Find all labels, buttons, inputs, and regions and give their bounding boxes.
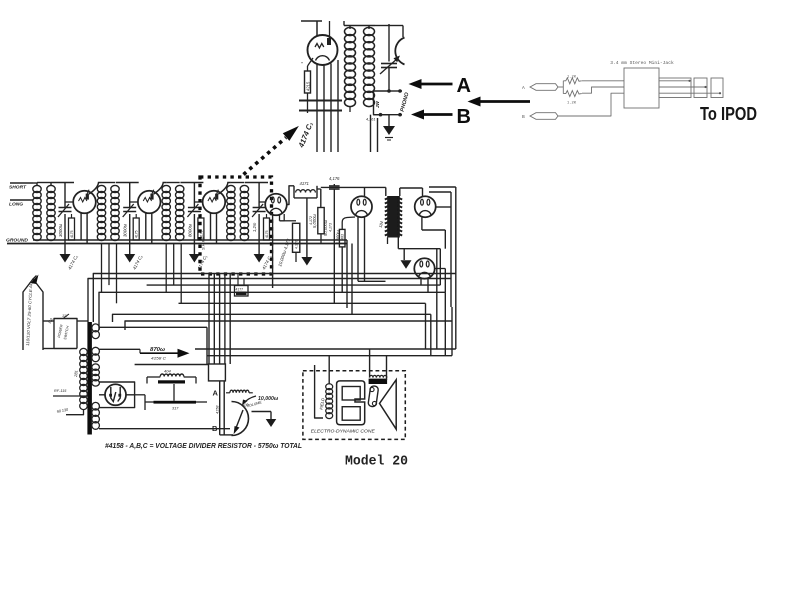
- bus wire h7: [125, 321, 452, 330]
- tube V6 second audio: [415, 196, 436, 217]
- svg-text:A: A: [522, 85, 525, 91]
- wire: V4 plate to choke: [287, 186, 295, 205]
- svg-text:4175: 4175: [70, 230, 74, 238]
- power switch: [54, 319, 77, 349]
- wire: choke tap down: [306, 198, 308, 257]
- svg-text:4,176: 4,176: [295, 240, 299, 249]
- wire: filter rail: [135, 364, 209, 366]
- inset coil L2 secondary: [364, 27, 375, 35]
- phono jack switch box: [374, 91, 390, 115]
- variable tuning capacitor C4 (detector): [258, 183, 260, 208]
- inset coil tap: [349, 107, 351, 112]
- arrow to node A: [420, 83, 453, 86]
- svg-text:B: B: [212, 424, 218, 433]
- jack shaft: [659, 78, 691, 98]
- grid resistor 4175 stage 2: [133, 218, 139, 240]
- tube V4 detector: [265, 194, 287, 216]
- wire: B+ rail to AF: [321, 186, 365, 188]
- svg-text:4,173: 4,173: [329, 223, 333, 232]
- wire: V2 grid: [130, 201, 138, 203]
- inset wire: cap to node A: [388, 68, 390, 92]
- wire: V2 plate: [154, 183, 167, 195]
- tube V1 RF amplifier: [73, 191, 96, 214]
- voltage divider resistor 4158: [219, 381, 221, 435]
- AF choke 4171: [296, 190, 316, 193]
- ground for C1: [60, 254, 71, 263]
- output transformer winding: [369, 379, 388, 384]
- bus wire h4: [99, 292, 445, 330]
- wire: stage 2 top rail: [116, 182, 139, 184]
- svg-text:4215: 4215: [306, 81, 311, 91]
- jack ring segment: [694, 78, 707, 98]
- magnet window lower: [342, 407, 360, 421]
- svg-text:1.2K: 1.2K: [567, 76, 577, 80]
- wire: HT secondary leads: [99, 326, 207, 328]
- arrow to node B: [422, 113, 453, 116]
- jack conductors: [659, 80, 689, 82]
- power transformer primary winding: [80, 348, 88, 355]
- svg-text:870ω: 870ω: [150, 347, 166, 353]
- ground for C4: [254, 254, 265, 263]
- magnet window upper: [342, 387, 360, 401]
- power transformer secondary windings: [92, 324, 100, 332]
- inset wire: coil top connections: [344, 25, 375, 27]
- rectifier tube V8: [105, 384, 126, 405]
- grid condenser plates: [299, 100, 342, 102]
- bus wire h3: [147, 284, 441, 286]
- cathode resistor 403 1800 ohm: [339, 229, 345, 247]
- svg-text:To IPOD: To IPOD: [700, 103, 757, 124]
- svg-text:ELECTRO-DYNAMIC CONE: ELECTRO-DYNAMIC CONE: [311, 429, 375, 434]
- wire: V1 grid: [65, 201, 73, 203]
- svg-text:A: A: [457, 75, 471, 97]
- svg-text:GROUND: GROUND: [6, 238, 28, 243]
- node B junction dots: [379, 113, 383, 117]
- RF transformer T4 secondary: [240, 185, 248, 192]
- interstage transformer T5: [387, 196, 400, 238]
- filament bus wire: [33, 239, 347, 241]
- terminal SHORT: [10, 182, 33, 184]
- svg-text:SHORT: SHORT: [9, 185, 26, 190]
- svg-text:4,172: 4,172: [309, 216, 313, 225]
- inset wire: lower leads: [370, 115, 372, 152]
- bus wire h2: [88, 279, 451, 323]
- svg-text:4175: 4175: [265, 230, 269, 238]
- wire: speaker feed rail lower: [207, 355, 452, 357]
- ground for C3: [189, 254, 200, 263]
- svg-text:4158: 4158: [216, 405, 220, 414]
- field coil: [326, 384, 333, 390]
- grid leak resistor 4215: [308, 58, 314, 66]
- connector B ground: [530, 113, 558, 120]
- svg-text:1.2K: 1.2K: [567, 102, 577, 106]
- svg-text:50,000ω: 50,000ω: [323, 219, 328, 236]
- variable tuning capacitor C1: [64, 183, 66, 208]
- svg-text:317: 317: [172, 407, 179, 411]
- inset filament lead 1: [316, 63, 318, 152]
- svg-text:S.H.P.F: S.H.P.F: [201, 236, 206, 250]
- wire: filament drops: [346, 240, 348, 308]
- svg-text:3000ω: 3000ω: [58, 223, 63, 237]
- inset variable capacitor: [381, 63, 397, 65]
- wire: divider bottom: [220, 434, 233, 436]
- wire: block risers: [237, 274, 239, 286]
- svg-text:4175: 4175: [135, 230, 139, 238]
- wire: AC to switch: [43, 320, 54, 322]
- inset wire: B+ riser: [388, 24, 390, 62]
- svg-text:3.4 mm Stereo Mini-Jack: 3.4 mm Stereo Mini-Jack: [610, 60, 674, 66]
- wire: rectifier loop box: [99, 382, 135, 408]
- wire: choke right to B+: [320, 189, 322, 208]
- amplifier ground: [270, 412, 272, 420]
- svg-text:″: ″: [301, 62, 303, 68]
- voice coil: [368, 386, 379, 407]
- wire: stage drop verticals: [101, 244, 103, 293]
- svg-text:JW: JW: [375, 100, 380, 108]
- inset ground: [388, 115, 390, 126]
- speaker dashed enclosure: [303, 371, 405, 440]
- AC supply cable label: [23, 279, 43, 350]
- wire: right bus drops: [425, 303, 427, 349]
- output stage ground: [401, 260, 412, 269]
- wire: V5 filament legs: [357, 217, 359, 282]
- svg-text:8000ω: 8000ω: [187, 223, 192, 237]
- antenna coil primary: [33, 182, 37, 184]
- wire: speaker feed rail upper: [195, 348, 456, 350]
- wire R1 to tip: [582, 80, 624, 82]
- svg-text:LONG: LONG: [9, 202, 24, 207]
- voltage divider feed: [206, 327, 208, 364]
- ground for C2: [124, 254, 135, 263]
- wire: speaker leads: [369, 349, 371, 378]
- svg-text:4171: 4171: [300, 181, 309, 186]
- grid resistor 4175 stage 1: [69, 218, 75, 240]
- wire R2 to ring: [582, 87, 624, 93]
- wire: V3 grid: [194, 201, 202, 203]
- ground bus wire: [7, 243, 347, 245]
- wire: V4 grid: [259, 201, 265, 203]
- inset filament lead 4: [337, 60, 339, 152]
- wire: V6 to right bus: [429, 186, 456, 188]
- wire: T5 bottom to output grid: [397, 238, 399, 249]
- RF transformer T2 primary: [102, 182, 116, 184]
- speaker cone: [380, 380, 397, 430]
- node A junction dots: [387, 89, 391, 93]
- wire: pot to ground: [252, 411, 272, 413]
- svg-text:#4158 - A,B,C = VOLTAGE DIVIDE: #4158 - A,B,C = VOLTAGE DIVIDER RESISTOR…: [105, 441, 302, 450]
- RF transformer T2 secondary: [111, 185, 119, 192]
- svg-text:403: 403: [341, 234, 345, 240]
- RF transformer T3 primary: [166, 182, 180, 184]
- wire: B- return: [99, 428, 230, 430]
- svg-text:3000ω: 3000ω: [123, 223, 128, 237]
- bus wire h6: [113, 314, 431, 322]
- tube V5 arc partial (inset): [395, 38, 404, 65]
- wire: cap connections: [145, 401, 154, 403]
- jack body: [624, 68, 659, 108]
- svg-text:Model 20: Model 20: [345, 455, 408, 470]
- resistor 4172 5000 ohm: [318, 208, 324, 234]
- grid resistor 4175 stage 4: [264, 218, 270, 240]
- connector A left channel: [530, 84, 558, 91]
- wire: field coil supply: [328, 356, 330, 385]
- wire: V3 plate: [218, 183, 231, 195]
- svg-text:4177: 4177: [236, 288, 244, 292]
- svg-text:404: 404: [164, 369, 171, 374]
- filter capacitor 317: [154, 401, 197, 404]
- tube V5 first audio: [351, 196, 372, 217]
- RF transformer T4 primary: [231, 182, 245, 184]
- wire: rectifier filament: [99, 394, 105, 396]
- dotted arrow callout: [244, 138, 287, 175]
- svg-text:B: B: [522, 114, 525, 120]
- power transformer core: [87, 322, 92, 435]
- svg-text:B: B: [457, 106, 471, 128]
- wire: stage 1 top rail: [51, 182, 74, 184]
- tube V3 RF amplifier: [203, 191, 226, 214]
- svg-text:RF-115: RF-115: [54, 389, 67, 393]
- terminal LONG: [10, 199, 33, 201]
- B+ arrow 870 ohm: [139, 349, 141, 353]
- bus wire h5: [106, 303, 108, 327]
- wire: stage 3 top rail: [180, 182, 203, 184]
- tube V4 inset (detector triode): [308, 35, 338, 65]
- tube V2 RF amplifier: [138, 191, 161, 214]
- resistor R1 1.2K: [563, 78, 582, 84]
- wire B to sleeve: [558, 93, 624, 116]
- svg-text:4,176: 4,176: [329, 176, 340, 181]
- tube V7 power output: [414, 258, 434, 278]
- wire: T5 secondary to V6: [399, 188, 401, 196]
- inset filament lead 2: [323, 65, 325, 153]
- wire: stage 4 top rail: [245, 182, 268, 184]
- wire: V6 filament legs: [421, 217, 423, 230]
- grid resistor 4176 detector: [293, 223, 300, 252]
- filter resistor 404: [160, 374, 183, 377]
- volume control coil: [230, 390, 249, 393]
- inset wire: top lead: [301, 20, 322, 22]
- wire: V1 plate: [89, 183, 102, 195]
- dotted highlight box around detector stage: [200, 177, 272, 274]
- variable tuning capacitor C2: [129, 183, 131, 208]
- voltage divider box: [209, 364, 226, 381]
- resistor R2 1.2K: [563, 91, 582, 97]
- inset filament lead 3: [330, 64, 332, 153]
- bus wire h1: [93, 274, 456, 323]
- RF transformer T3 secondary: [176, 185, 184, 192]
- antenna coil secondary: [47, 185, 55, 192]
- wire: V7 legs: [420, 278, 422, 285]
- speaker magnet core: [337, 381, 365, 425]
- wire: primary connections: [77, 320, 88, 322]
- svg-text:4158 C: 4158 C: [151, 356, 166, 361]
- wire A to resistors: [558, 86, 563, 88]
- arrow from jack to label A: [479, 100, 531, 103]
- inset coil L1 primary: [345, 27, 356, 35]
- bus riser bundle: [208, 274, 210, 365]
- detector ground: [301, 257, 312, 266]
- volume control potentiometer: [232, 402, 249, 436]
- bypass condenser block 4177: [235, 286, 249, 297]
- svg-text:281: 281: [73, 370, 79, 378]
- grid resistor 4175 stage 3: [198, 218, 204, 240]
- svg-text:A: A: [213, 389, 219, 398]
- wire: V4 cathode network: [280, 214, 285, 221]
- variable tuning capacitor C3: [193, 183, 195, 208]
- svg-text:1,2m: 1,2m: [252, 222, 257, 232]
- jack tip segment: [711, 78, 723, 98]
